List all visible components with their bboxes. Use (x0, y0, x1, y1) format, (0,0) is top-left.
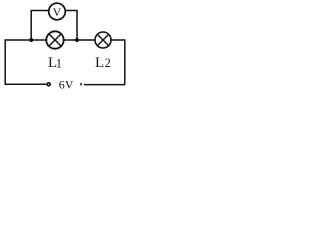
wire: main horizontal, left edge to L1 (5, 39, 47, 41)
battery: right terminal (80, 83, 83, 85)
wire: L2 to right edge (111, 39, 125, 41)
wire: voltmeter left vertical drop (30, 10, 32, 40)
node: junction right of L1 (75, 38, 79, 42)
battery: left terminal (47, 83, 50, 86)
wire: between L1 and L2 (64, 39, 96, 41)
svg-text:L: L (95, 55, 104, 71)
wire: battery terminal to bottom right (84, 84, 125, 86)
wire: left vertical edge (4, 39, 6, 84)
node: junction left of L1 (29, 38, 33, 42)
wire: voltmeter right lead (66, 10, 78, 12)
wire: voltmeter left lead (31, 10, 49, 12)
wire: voltmeter right vertical drop (76, 10, 78, 40)
svg-text:6V: 6V (59, 78, 74, 91)
svg-text:2: 2 (105, 56, 111, 70)
wire: bottom left to battery terminal (5, 83, 47, 85)
lamp L2 (95, 32, 111, 48)
voltmeter V (49, 3, 66, 20)
svg-text:V: V (53, 5, 62, 19)
svg-text:1: 1 (56, 57, 62, 71)
wire: right vertical edge (124, 39, 126, 84)
lamp L1 (46, 31, 63, 48)
